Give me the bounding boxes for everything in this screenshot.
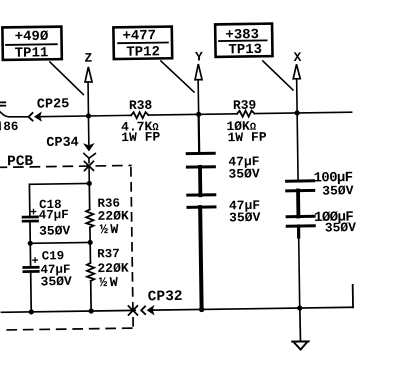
wire left column upper <box>28 184 30 215</box>
svg-text:CP34: CP34 <box>46 136 79 151</box>
wire right stub up <box>352 285 354 307</box>
wire Z bus down to CP34 arrow <box>87 116 89 144</box>
wire Y arrow to bus <box>197 80 199 115</box>
svg-text:C19: C19 <box>42 249 65 263</box>
inner box top rail <box>29 182 89 185</box>
svg-text:35ØV: 35ØV <box>39 223 71 238</box>
connector CP34 arrow (down) <box>84 144 93 151</box>
inner box middle rail <box>30 241 90 244</box>
capacitor bank X column: wire from bus <box>296 113 299 179</box>
wire R38 to R39 <box>148 114 237 115</box>
wire CP34 into PCB box <box>88 168 90 183</box>
capacitor 100uF top (X) <box>287 179 314 182</box>
svg-text:TP13: TP13 <box>228 42 262 58</box>
node Y off-page arrow <box>195 64 202 80</box>
test point callout TP13 <box>215 24 272 59</box>
test point callout TP12 <box>113 27 172 61</box>
svg-text:CP25: CP25 <box>37 97 70 112</box>
svg-text:R38: R38 <box>129 98 153 113</box>
svg-text:47µF: 47µF <box>39 208 69 222</box>
connector CP32 arrow <box>147 306 153 314</box>
wire Z arrow to bus <box>87 82 90 116</box>
leader line TP11 to node Z <box>50 62 83 95</box>
resistor R36 <box>88 183 90 209</box>
ground <box>292 340 308 342</box>
connector CP25 chevron <box>28 113 32 121</box>
svg-text:TP12: TP12 <box>126 44 160 60</box>
svg-text:Y: Y <box>195 49 203 64</box>
svg-text:½W: ½W <box>100 223 120 238</box>
capacitor 47uF bottom (Y) <box>188 193 215 196</box>
connector CP32 board crossing X <box>128 306 137 315</box>
wire C19 to bottom bus <box>30 273 33 312</box>
PCB dashed boundary bottom <box>0 328 132 330</box>
wire X arrow to bus <box>296 79 298 113</box>
svg-text:35ØV: 35ØV <box>228 166 260 181</box>
svg-text:1W FP: 1W FP <box>227 130 266 146</box>
wire bottom bus left <box>1 310 135 312</box>
node Z off-page arrow <box>85 67 92 82</box>
capacitor 47uF top (Y) <box>187 152 214 155</box>
node X off-page arrow <box>293 64 300 79</box>
node box top-right junction <box>87 181 92 186</box>
partial text 86 at left edge <box>0 122 1 129</box>
svg-text:+49Ø: +49Ø <box>15 29 49 45</box>
svg-text:35ØV: 35ØV <box>229 210 261 225</box>
leader line TP12 to node Y <box>161 61 194 93</box>
PCB dashed boundary top <box>0 165 131 167</box>
connector CP34 board crossing X <box>84 161 93 170</box>
leader line TP13 to node X <box>263 61 293 91</box>
connector CP32 chevron <box>141 306 145 314</box>
node X bus junction <box>294 110 299 115</box>
svg-text:35ØV: 35ØV <box>325 220 357 235</box>
svg-text:22ØK: 22ØK <box>97 261 129 276</box>
test point callout TP11 <box>2 27 61 62</box>
svg-text:CP32: CP32 <box>148 289 183 305</box>
wire thick Y caps to bottom bus <box>200 207 201 309</box>
wire top bus to R38 <box>40 115 131 116</box>
partial text E at left edge <box>0 101 5 103</box>
connector CP25 arrow <box>35 113 41 121</box>
node Y bus junction <box>196 112 201 117</box>
wire top bus left with dip <box>0 109 28 117</box>
wire X junction down to ground <box>299 308 302 341</box>
svg-text:86: 86 <box>3 120 18 134</box>
svg-text:R37: R37 <box>97 247 120 261</box>
svg-text:Z: Z <box>84 51 92 66</box>
wire thick between Y caps <box>198 167 202 195</box>
wire X column to bottom bus <box>299 237 300 308</box>
wire R39 to right end <box>254 112 351 113</box>
svg-text:TP11: TP11 <box>15 45 49 61</box>
svg-text:½W: ½W <box>99 276 119 291</box>
svg-text:X: X <box>293 50 301 65</box>
connector CP34 chevron (down) <box>84 153 96 158</box>
wire C18 to middle rail <box>29 222 31 243</box>
capacitor 100uF bottom (X) <box>287 215 314 218</box>
svg-text:22ØK: 22ØK <box>97 208 129 223</box>
svg-text:35ØV: 35ØV <box>41 274 73 289</box>
wire bottom bus right <box>153 307 353 310</box>
wire thick between X caps <box>296 190 300 216</box>
node Z bus junction <box>86 113 91 118</box>
capacitor bank Y column: wire from bus <box>198 114 201 152</box>
svg-text:1W FP: 1W FP <box>121 130 160 146</box>
svg-text:35ØV: 35ØV <box>322 183 354 198</box>
PCB dashed boundary right <box>131 168 133 327</box>
resistor R37 <box>89 242 91 262</box>
capacitor C19 <box>29 243 31 266</box>
wire X caps short thick stub <box>297 226 300 237</box>
